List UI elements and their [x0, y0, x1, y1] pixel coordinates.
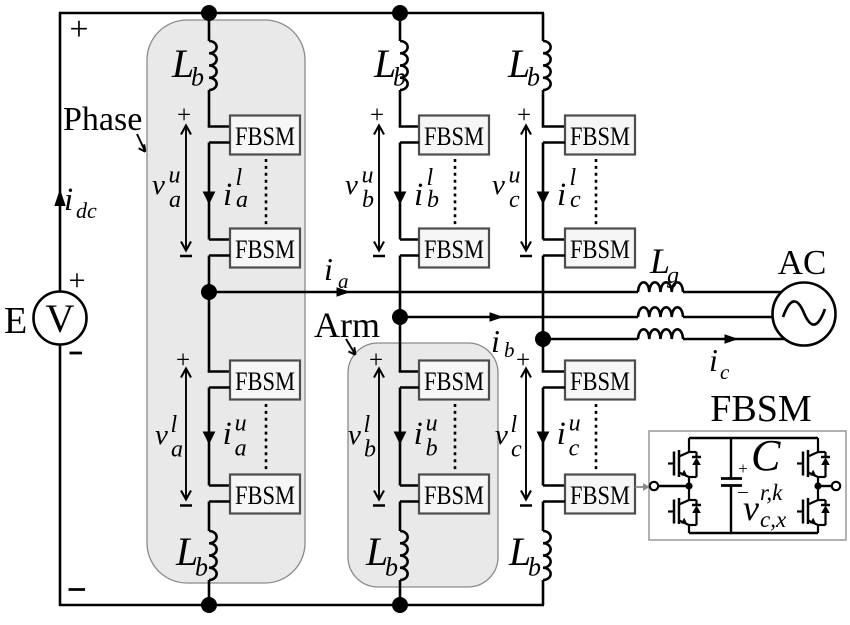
svg-text:b: b — [364, 437, 376, 463]
svg-text:i: i — [709, 342, 718, 378]
label Lb (phase b lower) — [365, 529, 398, 582]
svg-text:+: + — [69, 11, 88, 48]
dotted continuation between FBSMs (phase c upper) — [595, 159, 598, 226]
label Phase with pointer arrow — [63, 101, 145, 152]
wire: second FBSM to AC node (phase b) — [400, 256, 419, 318]
label Lb (phase a upper) — [171, 41, 204, 92]
arm highlight region (phase-b lower arm) — [348, 343, 498, 587]
label i_b_l (upper arm current) — [414, 165, 439, 213]
wire: AC node into third FBSM (phase b) — [399, 317, 419, 372]
svg-text:u: u — [426, 411, 438, 437]
svg-text:c: c — [570, 187, 581, 213]
svg-text:FBSM: FBSM — [235, 235, 295, 264]
FBSM submodule box b-lower-2 — [419, 475, 489, 514]
svg-text:i: i — [223, 416, 232, 452]
wire: AC phase b line with current arrow i_b — [400, 312, 773, 322]
svg-text:C: C — [751, 431, 781, 480]
svg-text:FBSM: FBSM — [424, 481, 484, 510]
svg-text:V: V — [46, 296, 75, 341]
wire: second FBSM to AC node (phase a) — [209, 256, 230, 293]
svg-text:v: v — [348, 419, 361, 451]
svg-text:FBSM: FBSM — [235, 367, 295, 396]
IGBT T3 (right upper) — [797, 438, 830, 486]
svg-text:v: v — [495, 419, 508, 451]
wire: AC node into third FBSM (phase a) — [208, 292, 230, 372]
svg-text:c: c — [720, 360, 730, 384]
svg-text:FBSM: FBSM — [235, 481, 295, 510]
svg-text:c: c — [511, 437, 522, 463]
junction node: phase a bottom rail — [201, 597, 217, 613]
inductor Lb (phase b lower arm) — [400, 502, 419, 606]
svg-text:FBSM: FBSM — [570, 235, 630, 264]
junction node: phase b bottom rail — [392, 597, 408, 613]
capacitor C (detail) — [721, 438, 742, 533]
- mark of capacitor — [737, 481, 748, 502]
label v_c_l — [495, 412, 522, 463]
label Lb (phase b upper) — [373, 41, 406, 92]
svg-text:FBSM: FBSM — [424, 122, 484, 151]
label i_c_u (lower arm current) — [557, 411, 581, 462]
wire: series chain upper arm (phase b) with current arrow i_b — [394, 143, 419, 240]
svg-text:i: i — [557, 416, 566, 452]
svg-text:c,x: c,x — [760, 507, 787, 532]
voltage arrow v_b_u (upper arm) — [370, 102, 385, 256]
svg-text:b: b — [385, 553, 398, 582]
label i_a — [324, 251, 349, 293]
FBSM submodule box a-lower-1 — [230, 361, 300, 400]
svg-text:+: + — [738, 459, 748, 478]
svg-text:b: b — [504, 338, 515, 362]
label i_c_l (upper arm current) — [557, 165, 581, 213]
current arrow i_dc on left bus — [54, 189, 65, 206]
FBSM submodule box c-lower-2 — [565, 475, 635, 514]
wire: AC phase c line with current arrow i_c — [543, 334, 785, 344]
IGBT T4 (right lower) — [797, 486, 830, 533]
dotted continuation between FBSMs (phase b lower) — [454, 404, 457, 471]
svg-text:b: b — [393, 63, 406, 92]
label i_b_u (lower arm current) — [414, 411, 438, 462]
phase-a leg highlight region — [147, 20, 305, 583]
wire: leg into first FBSM (phase c) — [542, 125, 565, 128]
AC source (grid) — [773, 283, 836, 346]
+ polarity mark top-left of DC bus — [69, 11, 88, 48]
svg-text:l: l — [511, 412, 518, 438]
label Lg — [649, 241, 679, 289]
svg-text:b: b — [191, 63, 204, 92]
inductor Lb (phase c lower arm) — [543, 502, 565, 606]
label v_c,x^r,k (capacitor voltage) — [743, 480, 787, 532]
svg-text:i: i — [491, 323, 500, 359]
svg-text:+: + — [516, 347, 530, 374]
node: right leg midpoint (detail output) — [814, 482, 840, 490]
svg-text:a: a — [169, 187, 181, 213]
label C (capacitance) — [751, 431, 781, 480]
junction node: phase b AC output — [392, 309, 408, 325]
svg-text:l: l — [364, 412, 371, 438]
svg-text:i: i — [557, 177, 566, 213]
svg-text:c: c — [509, 187, 520, 213]
IGBT T1 (left upper) — [668, 438, 701, 486]
node: left leg midpoint (detail input) — [650, 482, 693, 490]
+ mark of capacitor — [738, 459, 748, 478]
wire: left DC bus (lower segment) — [59, 344, 62, 606]
gray arrow from phase-c lower FBSM to detail — [635, 483, 650, 490]
dotted continuation between FBSMs (phase c lower) — [595, 404, 598, 471]
svg-text:FBSM: FBSM — [570, 367, 630, 396]
inductor Lb (phase a upper arm) — [209, 13, 217, 127]
svg-text:u: u — [235, 411, 247, 437]
voltage arrow v_c_u (upper arm) — [517, 102, 532, 256]
label i_a_u (lower arm current) — [223, 411, 247, 462]
wire: H-bridge bottom rail (detail) — [689, 532, 818, 534]
wire: series chain upper arm (phase a) with current arrow i_a — [203, 143, 230, 240]
svg-text:v: v — [345, 169, 358, 201]
wire: AC node into third FBSM (phase c) — [542, 339, 565, 372]
svg-text:i: i — [64, 182, 73, 218]
junction node: phase b top rail — [392, 5, 408, 21]
voltage arrow v_a_l (lower arm) — [176, 347, 192, 506]
FBSM submodule box a-upper-1 — [230, 116, 300, 155]
label v_a_u — [152, 163, 181, 214]
svg-text:a: a — [338, 269, 349, 293]
FBSM submodule box a-lower-2 — [230, 475, 300, 514]
svg-text:b: b — [426, 436, 438, 462]
- polarity of source E — [70, 352, 83, 355]
svg-text:c: c — [569, 436, 580, 462]
voltage arrow v_c_l (lower arm) — [516, 347, 532, 506]
grid inductor Lg (phase b) — [638, 307, 683, 317]
voltage arrow v_b_l (lower arm) — [369, 347, 385, 506]
voltage arrow v_a_u (upper arm) — [177, 102, 192, 256]
grid inductor Lg (phase c) — [638, 329, 683, 339]
wire: series chain lower arm (phase c) with current arrow — [537, 388, 565, 486]
svg-text:u: u — [362, 163, 374, 189]
voltage source V (DC source E) — [34, 292, 87, 345]
svg-text:FBSM: FBSM — [235, 122, 295, 151]
svg-text:u: u — [169, 163, 181, 189]
svg-text:a: a — [171, 437, 183, 463]
svg-text:i: i — [414, 416, 423, 452]
svg-text:+: + — [69, 264, 86, 297]
svg-text:b: b — [528, 553, 541, 582]
svg-text:v: v — [743, 488, 759, 528]
svg-text:u: u — [509, 163, 521, 189]
svg-text:FBSM: FBSM — [424, 235, 484, 264]
svg-text:g: g — [667, 263, 679, 289]
svg-text:E: E — [4, 300, 27, 342]
svg-text:l: l — [171, 412, 178, 438]
svg-text:+: + — [177, 102, 191, 129]
wire: top DC rail — [59, 12, 544, 15]
wire: left DC bus (upper segment) — [59, 12, 62, 292]
svg-text:b: b — [195, 553, 208, 582]
wire: series chain lower arm (phase b) with current arrow — [394, 388, 419, 486]
svg-text:i: i — [414, 177, 423, 213]
svg-text:Phase: Phase — [63, 101, 142, 138]
wire: leg into first FBSM (phase b) — [399, 125, 419, 128]
svg-text:FBSM: FBSM — [570, 122, 630, 151]
label v_b_l — [348, 412, 376, 463]
label Lb (phase c lower) — [508, 529, 541, 582]
inductor Lb (phase b upper arm) — [400, 13, 408, 127]
svg-text:v: v — [152, 169, 165, 201]
wire: H-bridge top rail (detail) — [689, 437, 818, 439]
FBSM submodule box b-upper-1 — [419, 116, 489, 155]
IGBT T2 (left lower) — [668, 486, 701, 533]
svg-text:i: i — [324, 251, 333, 287]
label i_a_l (upper arm current) — [223, 165, 248, 213]
svg-text:FBSM: FBSM — [424, 367, 484, 396]
label Lb (phase a lower) — [175, 529, 208, 582]
label Lb (phase c upper) — [507, 41, 540, 92]
inductor Lb (phase c upper arm) — [543, 13, 551, 127]
junction node: phase a top rail — [201, 5, 217, 21]
svg-text:r,k: r,k — [760, 480, 783, 505]
svg-text:b: b — [527, 63, 540, 92]
svg-text:FBSM: FBSM — [570, 481, 630, 510]
svg-text:b: b — [427, 187, 439, 213]
- polarity mark bottom-left of DC bus — [69, 588, 86, 591]
svg-text:+: + — [370, 102, 384, 129]
dotted continuation between FBSMs (phase a lower) — [265, 404, 268, 471]
svg-text:b: b — [362, 187, 374, 213]
label E (source designator) — [4, 300, 27, 342]
label i_b — [491, 323, 515, 362]
label v_c_u — [492, 163, 521, 214]
label i_c — [709, 342, 730, 384]
svg-text:AC: AC — [778, 243, 827, 282]
label Arm with pointer arrow — [314, 305, 380, 355]
FBSM submodule box c-upper-1 — [565, 116, 635, 155]
FBSM detail outer box — [649, 431, 846, 540]
label v_b_u — [345, 163, 374, 214]
svg-text:a: a — [236, 187, 248, 213]
label AC — [778, 243, 827, 282]
inductor Lb (phase a lower arm) — [209, 502, 230, 606]
FBSM submodule box c-lower-1 — [565, 361, 635, 400]
svg-text:v: v — [155, 419, 168, 451]
svg-text:u: u — [569, 411, 581, 437]
FBSM submodule box b-upper-2 — [419, 229, 489, 268]
svg-text:dc: dc — [76, 198, 97, 223]
wire: series chain lower arm (phase a) with current arrow — [203, 388, 230, 486]
label FBSM (detail title) — [710, 388, 811, 430]
wire: series chain upper arm (phase c) with current arrow i_c — [537, 143, 565, 240]
svg-text:i: i — [223, 177, 232, 213]
dotted continuation between FBSMs (phase b upper) — [454, 159, 457, 226]
svg-text:FBSM: FBSM — [710, 388, 811, 430]
FBSM submodule box b-lower-1 — [419, 361, 489, 400]
wire: second FBSM to AC node (phase c) — [543, 256, 565, 340]
junction node: phase c AC output — [535, 331, 551, 347]
wire: AC phase a line with current arrow i_a — [209, 287, 781, 297]
FBSM submodule box a-upper-2 — [230, 229, 300, 268]
dotted continuation between FBSMs (phase a upper) — [265, 159, 268, 226]
svg-text:v: v — [492, 169, 505, 201]
svg-text:+: + — [176, 347, 190, 374]
FBSM submodule box c-upper-2 — [565, 229, 635, 268]
svg-text:+: + — [517, 102, 531, 129]
svg-text:a: a — [235, 436, 247, 462]
grid inductor Lg (phase a) — [638, 282, 683, 292]
label i_dc — [64, 182, 97, 223]
+ polarity of source E — [69, 264, 86, 297]
label v_a_l — [155, 412, 183, 463]
wire: bottom DC rail — [59, 604, 544, 607]
junction node: phase a AC output — [201, 284, 217, 300]
svg-text:+: + — [369, 347, 383, 374]
wire: leg into first FBSM (phase a) — [208, 125, 230, 128]
